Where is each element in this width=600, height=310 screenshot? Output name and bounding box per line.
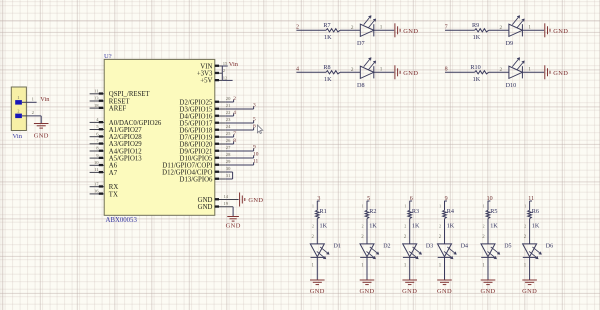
resistor R1 [316,208,327,219]
value 1K (R8) [324,76,332,83]
wire net 2 [226,99,234,102]
wire connector pin 2 to ground [22,110,41,123]
svg-text:R1: R1 [320,208,327,215]
wire LED D7 to ground [374,25,394,31]
svg-text:1: 1 [439,204,441,208]
svg-text:A7: A7 [109,170,118,177]
svg-text:23: 23 [226,117,231,122]
wire resistor R8 to LED D8 [340,67,360,73]
wire power pins tie (Vin net) [222,66,232,81]
svg-text:1K: 1K [324,76,332,83]
value 1K (R4) [447,223,455,230]
value 1K (R2) [369,223,377,230]
IC pin 13 RESET (left) [90,96,131,106]
svg-text:2: 2 [439,235,442,240]
svg-text:2: 2 [361,235,364,240]
svg-text:D1: D1 [334,243,341,249]
wire net 3 to resistor R1 [312,201,320,211]
IC pin 17 RX (left) [90,181,119,191]
svg-text:GND: GND [522,288,537,295]
LED D4 [438,243,469,258]
LED D7 [357,16,376,47]
IC pin 18 AREF (left) [90,103,127,113]
IC pin 4 A0/DAC0/GPIO26 (left) [90,117,162,127]
ground GND (D8) [395,65,418,79]
svg-text:1: 1 [483,204,485,208]
connector J1 "Vin" body [11,87,26,131]
svg-text:D5: D5 [504,243,511,249]
svg-text:Vin: Vin [40,96,50,103]
svg-text:D3/GPIO15: D3/GPIO15 [180,106,213,113]
svg-text:1: 1 [311,264,314,269]
wire resistor R1 to LED D1 [311,219,317,244]
svg-text:R8: R8 [323,64,330,71]
ground GND (D9) [545,23,568,37]
IC pin 6 A2/GPIO28 (left) [90,131,143,141]
connector pin 2 pad [15,109,22,118]
net label 5 [253,117,256,123]
svg-text:19: 19 [224,201,229,206]
svg-text:10: 10 [253,152,259,158]
connector pin 1 pad [15,95,22,104]
svg-text:1: 1 [361,264,364,269]
svg-text:A2/GPIO28: A2/GPIO28 [109,134,142,141]
svg-text:5: 5 [253,117,256,123]
svg-text:D8: D8 [357,82,365,89]
resistor R8 [323,64,340,74]
wire net 8 [226,141,234,144]
svg-text:1: 1 [524,264,527,269]
IC pin 23 D5/GPIO17 (right) [180,117,232,127]
net label 2 (to D7) [296,25,299,31]
net label 7 [233,131,236,137]
IC pin 21 D3/GPIO15 (right) [180,103,232,113]
svg-text:ABX00053: ABX00053 [106,217,138,224]
svg-text:1: 1 [482,264,485,269]
svg-text:9: 9 [253,145,256,151]
svg-text:1: 1 [380,67,383,73]
wire resistor R6 to LED D6 [524,219,530,244]
IC pin 2 +3V3 [197,68,226,77]
svg-text:16: 16 [94,189,99,194]
svg-text:14: 14 [224,194,229,199]
svg-text:A6: A6 [109,163,118,170]
svg-text:QSPI_/RESET: QSPI_/RESET [109,91,151,98]
IC pin 19 GND [198,201,233,211]
svg-text:A0/DAC0/GPIO26: A0/DAC0/GPIO26 [109,120,162,127]
IC pin 25 D7/GPIO19 (right) [180,131,232,141]
IC pin 12 +5V [200,75,228,84]
IC pin 31 D13/GPIO6 (right) [180,173,232,183]
svg-text:2: 2 [404,225,406,229]
svg-text:AREF: AREF [109,106,127,113]
value 1K (R9) [473,34,481,41]
svg-text:D2: D2 [383,243,390,249]
svg-text:Vin: Vin [229,61,239,68]
IC pin 16 TX (left) [90,189,118,199]
svg-text:D9/GPIO21: D9/GPIO21 [180,148,213,155]
IC pin 7 A3/GPIO29 (left) [90,139,143,149]
net label 6 [253,124,256,130]
svg-text:31: 31 [226,173,231,178]
mouse cursor [257,125,262,134]
svg-text:GND: GND [480,288,495,295]
IC pin 11 QSPI_/RESET (left) [90,89,151,99]
svg-text:D8/GPIO20: D8/GPIO20 [180,141,213,148]
svg-text:8: 8 [445,67,448,73]
svg-text:4: 4 [233,110,236,116]
svg-text:R9: R9 [472,22,479,29]
net label 2 [233,96,236,102]
svg-text:1: 1 [404,204,406,208]
wire net 7 to resistor R9 [445,29,475,31]
net label 3 [253,103,256,109]
svg-text:D10/GPIO5: D10/GPIO5 [180,155,213,162]
svg-text:R3: R3 [412,208,419,215]
wire LED D2 to ground [361,257,367,280]
LED D9 [506,16,524,47]
wire net 10 [226,155,254,158]
svg-text:2: 2 [483,225,485,229]
net label 10 [253,152,259,158]
svg-text:D4: D4 [461,243,468,249]
wire net 4 to resistor R8 [296,71,326,73]
net label 5 (to D2) [367,196,370,202]
wire net 6 to resistor R3 [404,201,412,211]
svg-text:A5/GPIO13: A5/GPIO13 [109,156,142,163]
IC pin 8 A4/GPIO12 (left) [90,146,143,156]
svg-text:VIN: VIN [200,63,212,70]
wire net 6 [226,127,254,130]
svg-text:22: 22 [226,110,231,115]
svg-text:D13/GPIO6: D13/GPIO6 [180,176,213,183]
ground GND (D5) [480,280,495,295]
wire connector pin 1 to net Vin [22,97,37,103]
ground GND (D3) [402,280,417,295]
svg-text:1K: 1K [412,223,420,230]
svg-text:D5/GPIO17: D5/GPIO17 [180,120,213,127]
svg-text:20: 20 [226,96,231,101]
svg-text:2: 2 [351,25,354,31]
svg-text:R2: R2 [369,208,376,215]
wire LED D6 to ground [524,257,530,280]
net label 11 [253,159,258,165]
wire net 11 [226,162,254,165]
resistor R2 [365,208,376,219]
svg-text:1: 1 [17,95,19,100]
wire LED D3 to ground [404,257,410,280]
svg-text:D10: D10 [506,82,517,89]
svg-text:RX: RX [109,184,119,191]
svg-text:2: 2 [351,67,354,73]
svg-text:1: 1 [528,25,531,31]
svg-text:2: 2 [524,235,527,240]
svg-text:A1/GPIO27: A1/GPIO27 [109,127,142,134]
IC pin 20 D2/GPIO25 (right) [180,96,232,106]
svg-text:2: 2 [524,225,526,229]
svg-text:GND: GND [226,222,241,229]
svg-text:1K: 1K [490,223,498,230]
svg-text:1K: 1K [473,76,481,83]
svg-text:GND: GND [359,288,374,295]
svg-text:1: 1 [32,97,35,102]
wire LED D9 to ground [522,25,544,31]
svg-text:R5: R5 [490,208,497,215]
net label Vin [40,96,50,103]
svg-text:GND: GND [553,28,568,35]
wire LED D4 to ground [439,257,445,280]
svg-text:13: 13 [94,96,99,101]
svg-text:2: 2 [17,109,19,114]
svg-text:26: 26 [226,138,231,143]
ground GND (D4) [437,280,452,295]
svg-text:1K: 1K [369,223,377,230]
svg-text:1K: 1K [532,223,540,230]
svg-text:D7: D7 [357,40,365,47]
svg-text:24: 24 [226,124,231,129]
svg-text:2: 2 [500,25,503,31]
svg-text:7: 7 [445,25,448,31]
wire resistor R2 to LED D2 [361,219,367,244]
svg-text:GND: GND [198,204,213,211]
svg-text:TX: TX [109,191,118,198]
IC pin 10 A6 (left) [90,160,118,170]
svg-text:D7/GPIO19: D7/GPIO19 [180,134,213,141]
svg-text:GND: GND [310,288,325,295]
svg-text:A4/GPIO12: A4/GPIO12 [109,148,142,155]
svg-text:1: 1 [439,264,442,269]
IC pin 11 A7 (left) [90,167,118,177]
svg-text:GND: GND [198,197,213,204]
svg-text:27: 27 [226,145,231,150]
IC pin 22 D4/GPIO16 (right) [180,110,232,120]
svg-text:GND: GND [248,197,263,204]
svg-text:U?: U? [104,53,112,60]
ground GND (connector) [34,124,49,140]
svg-text:2: 2 [404,235,407,240]
wire LED D5 to ground [482,257,488,280]
svg-text:2: 2 [32,110,35,115]
ground GND (pin 19) [226,217,241,230]
IC designator U? [104,53,112,60]
ground GND (D1) [310,280,325,295]
svg-text:2: 2 [362,225,364,229]
svg-text:A3/GPIO29: A3/GPIO29 [109,141,142,148]
wire net 8 to resistor R10 [445,71,475,73]
wire resistor R4 to LED D4 [439,219,445,244]
IC U? ABX00053 body [104,59,215,215]
svg-text:12: 12 [223,75,228,80]
wire net 4 [226,113,234,116]
svg-text:30: 30 [226,166,231,171]
svg-text:21: 21 [226,103,231,108]
wire pin19 to ground [232,207,234,217]
svg-text:3: 3 [253,103,256,109]
net label 11 (to D6) [528,196,534,202]
value 1K (R10) [473,76,481,83]
value 1K (R6) [532,223,540,230]
ground GND (D6) [522,280,537,295]
svg-text:R10: R10 [470,64,480,71]
net label 8 (to D10) [445,67,448,73]
net label 6 (to D3) [410,196,413,202]
svg-text:1K: 1K [320,223,328,230]
IC pin 5 A1/GPIO27 (left) [90,124,143,134]
LED D1 [310,243,341,258]
svg-text:D11/GPIO7/COPI: D11/GPIO7/COPI [162,162,213,169]
svg-text:R6: R6 [532,208,539,215]
value 1K (R3) [412,223,420,230]
svg-text:R7: R7 [323,22,330,29]
wire resistor R5 to LED D5 [482,219,488,244]
resistor R10 [470,64,488,74]
svg-text:25: 25 [226,131,231,136]
svg-text:7: 7 [233,131,236,137]
net label 7 (to D9) [445,25,448,31]
wire D12-D13 loop [226,172,233,179]
wire net 5 [226,120,254,123]
value 1K (R5) [490,223,498,230]
svg-text:11: 11 [94,167,99,172]
svg-text:10: 10 [94,160,99,165]
resistor R9 [472,22,489,32]
net label 9 [253,145,256,151]
svg-text:29: 29 [226,159,231,164]
LED D10 [506,58,524,89]
svg-text:17: 17 [94,181,99,186]
LED D5 [481,243,512,258]
IC pin 28 D10/GPIO5 (right) [180,152,232,162]
wire net 10 to resistor R5 [483,201,491,211]
LED D8 [357,58,376,89]
svg-text:1: 1 [312,204,314,208]
ground GND (D10) [545,65,568,79]
resistor R3 [408,208,419,219]
svg-text:1: 1 [362,204,364,208]
LED D6 [523,243,554,258]
svg-text:RESET: RESET [109,98,131,105]
net label 10 (to D5) [487,196,493,202]
svg-text:11: 11 [94,89,99,94]
ground GND bar (pin 14) [240,193,264,207]
svg-text:2: 2 [311,235,314,240]
wire net 5 to resistor R2 [362,201,370,211]
LED D3 [403,243,434,258]
resistor R6 [528,208,539,219]
resistor R7 [323,22,340,32]
wire resistor R7 to LED D7 [340,25,360,31]
IC pin 30 D12/GPIO4/CIPO (right) [162,166,231,176]
svg-text:1: 1 [404,264,407,269]
wire net 11 to resistor R6 [524,201,532,211]
IC pin 29 D11/GPIO7/COPI (right) [162,159,231,169]
svg-text:2: 2 [482,235,485,240]
svg-text:D2/GPIO25: D2/GPIO25 [180,99,213,106]
value 1K (R1) [320,223,328,230]
svg-text:D6/GPIO18: D6/GPIO18 [180,127,213,134]
svg-text:D12/GPIO4/CIPO: D12/GPIO4/CIPO [162,169,212,176]
net label 4 (to D8) [296,67,299,73]
svg-text:GND: GND [403,28,418,35]
resistor R5 [486,208,497,219]
wire net 2 to resistor R7 [296,29,326,31]
net label 3 (to D1) [317,196,320,202]
wire resistor R3 to LED D3 [404,219,410,244]
svg-text:2: 2 [223,68,226,73]
svg-text:4: 4 [296,67,299,73]
svg-text:D4/GPIO16: D4/GPIO16 [180,113,213,120]
wire LED D10 to ground [522,67,544,73]
IC part number ABX00053 [106,217,138,224]
svg-text:GND: GND [553,70,568,77]
svg-text:D6: D6 [546,243,553,249]
svg-text:R4: R4 [447,208,454,215]
svg-text:2: 2 [312,225,314,229]
svg-text:1: 1 [380,25,383,31]
wire net 9 to resistor R4 [439,201,447,211]
IC pin 14 GND [198,194,239,204]
svg-text:2: 2 [296,25,299,31]
wire LED D1 to ground [311,257,317,280]
svg-text:1: 1 [524,204,526,208]
svg-text:Vin: Vin [13,133,23,140]
net label 4 [233,110,236,116]
svg-text:GND: GND [34,132,49,139]
IC pin 26 D8/GPIO20 (right) [180,138,232,148]
svg-text:1K: 1K [473,34,481,41]
IC pin 9 A5/GPIO13 (left) [90,153,143,163]
svg-text:1K: 1K [324,34,332,41]
IC pin 24 D6/GPIO18 (right) [180,124,232,134]
svg-text:1K: 1K [447,223,455,230]
wire net 7 [226,134,234,137]
wire resistor R10 to LED D10 [489,67,509,73]
svg-text:2: 2 [500,67,503,73]
svg-text:GND: GND [403,70,418,77]
svg-text:2: 2 [439,225,441,229]
svg-text:+3V3: +3V3 [197,71,213,78]
svg-text:2: 2 [233,96,236,102]
resistor R4 [443,208,454,219]
svg-text:15: 15 [223,61,228,66]
svg-text:11: 11 [253,159,258,165]
svg-text:D3: D3 [426,243,433,249]
svg-text:D9: D9 [506,40,514,47]
svg-text:6: 6 [253,124,256,130]
ground GND (D2) [359,280,374,295]
value 1K (R7) [324,34,332,41]
svg-text:28: 28 [226,152,231,157]
ground GND (D7) [395,23,418,37]
svg-text:+5V: +5V [200,78,212,85]
net label 8 [233,138,236,144]
connector designator Vin [13,133,23,140]
svg-text:GND: GND [402,288,417,295]
svg-text:GND: GND [437,288,452,295]
IC pin 15 VIN (right top) [200,61,228,70]
wire net 3 [226,106,254,109]
svg-text:18: 18 [94,103,99,108]
wire net 9 [226,148,254,151]
svg-text:1: 1 [528,67,531,73]
net label Vin (IC) [229,61,239,68]
net label 9 (to D4) [445,196,448,202]
IC pin 27 D9/GPIO21 (right) [180,145,232,155]
LED D2 [360,243,391,258]
wire resistor R9 to LED D9 [489,25,509,31]
svg-text:8: 8 [233,138,236,144]
wire LED D8 to ground [374,67,394,73]
